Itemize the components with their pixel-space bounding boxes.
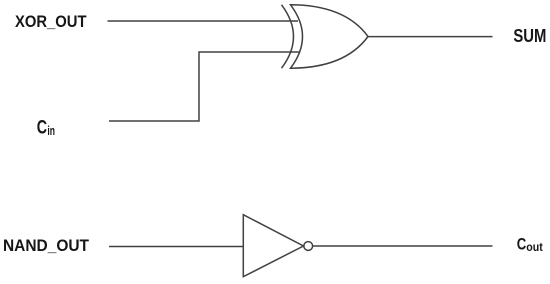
XOR gate input-side extra arc	[282, 5, 294, 68]
wire: NAND_OUT to inverter input	[109, 246, 243, 248]
svg-text:NAND_OUT: NAND_OUT	[3, 236, 90, 255]
inverter triangle	[243, 215, 303, 277]
wire: XOR output to SUM	[368, 36, 493, 38]
wire: inverter output to Cout	[313, 245, 493, 247]
svg-text:C: C	[517, 234, 527, 253]
svg-text:in: in	[47, 124, 55, 138]
XOR gate body	[291, 5, 369, 68]
inverter bubble	[304, 242, 313, 251]
wire: Cin to XOR bottom input (jogged)	[109, 52, 300, 121]
svg-text:SUM: SUM	[513, 25, 546, 46]
svg-text:C: C	[37, 118, 47, 139]
svg-text:out: out	[526, 240, 543, 254]
wire: XOR_OUT to XOR top input	[108, 20, 299, 22]
svg-text:XOR_OUT: XOR_OUT	[15, 12, 87, 31]
